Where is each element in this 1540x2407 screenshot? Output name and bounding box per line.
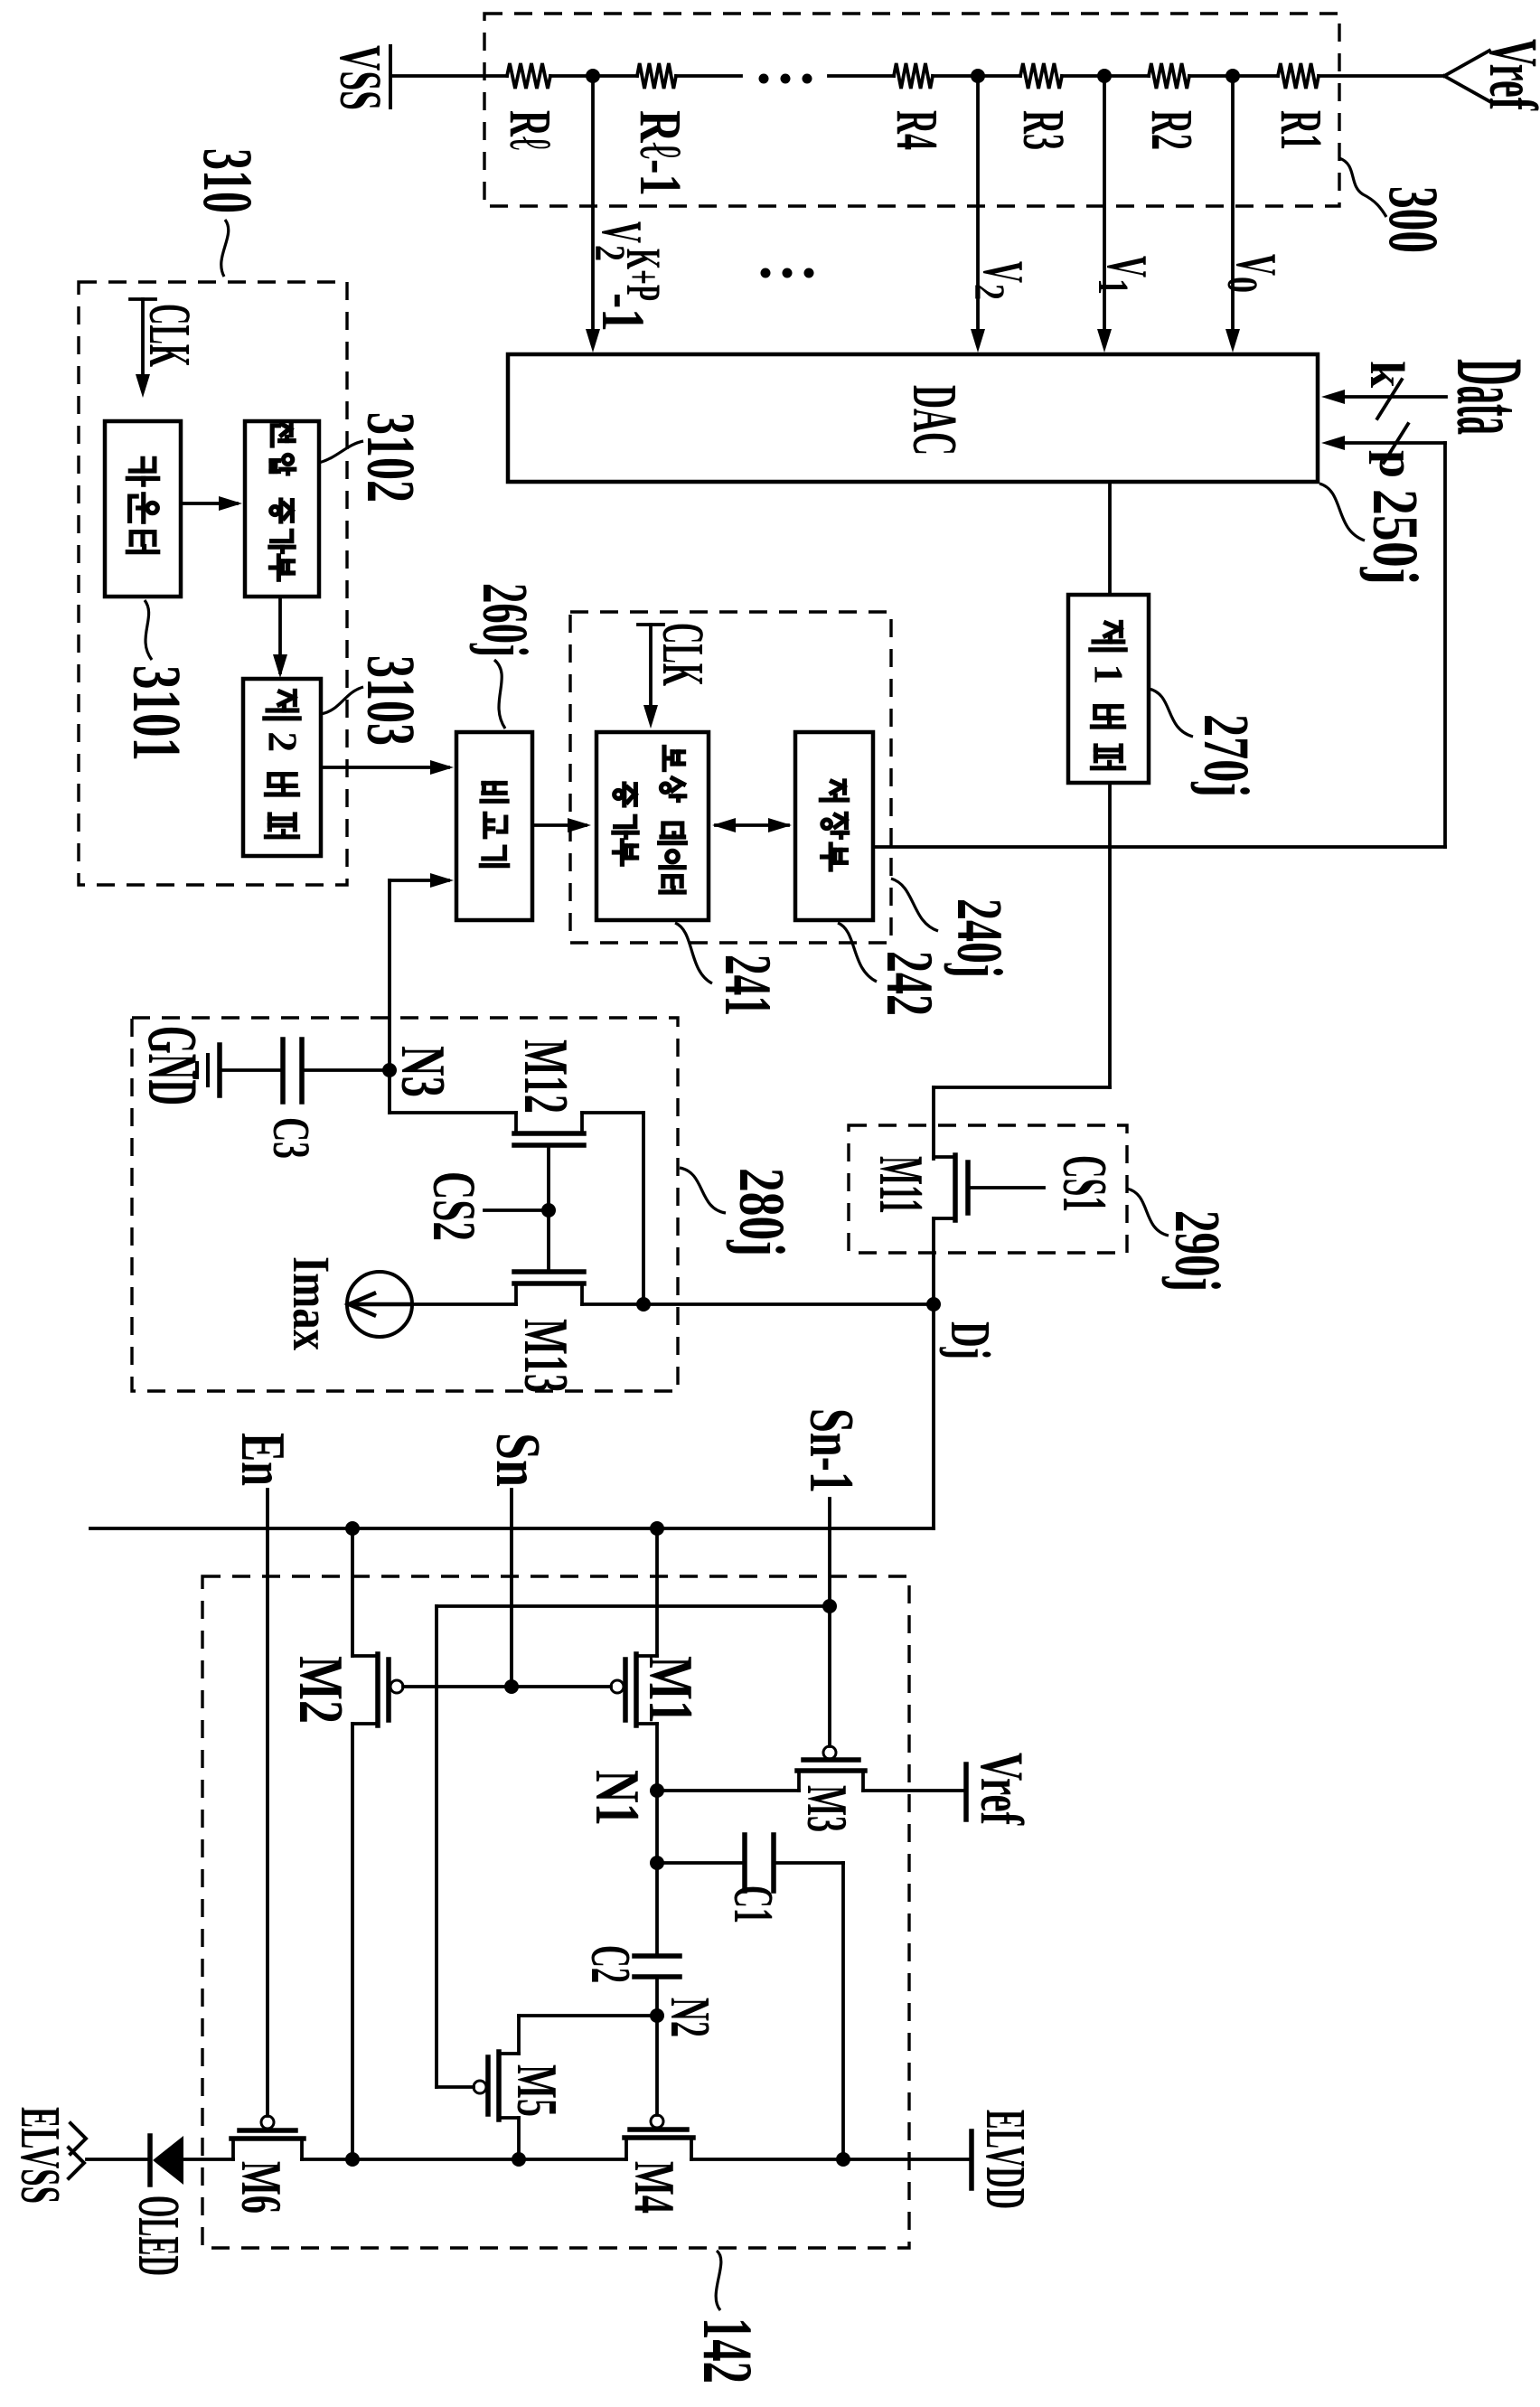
svg-text:260j: 260j	[469, 583, 541, 657]
transistor M1	[611, 1528, 657, 1791]
label 142 with leader	[689, 2251, 767, 2383]
node M5 source on rail	[512, 2152, 526, 2167]
svg-text:240j: 240j	[944, 898, 1016, 978]
svg-text:M11: M11	[866, 1156, 935, 1214]
svg-text:Dj: Dj	[939, 1321, 1000, 1359]
bus arrow p into DAC	[1321, 424, 1445, 463]
svg-text:C2: C2	[579, 1945, 641, 1983]
wire buffer1 output down	[1108, 783, 1112, 1087]
svg-text:N2: N2	[659, 1998, 720, 2037]
wire Rl-1 to dots	[676, 74, 741, 78]
dashed box 142 (pixel)	[202, 1576, 909, 2248]
resistor R3	[1010, 63, 1076, 150]
CLK input arrow (compensation)	[638, 623, 716, 729]
wire tap V0	[1225, 76, 1240, 353]
ELVDD terminal	[972, 2110, 1036, 2209]
wire N1 to M3	[657, 1789, 799, 1792]
svg-text:Rℓ: Rℓ	[497, 110, 563, 150]
svg-text:2: 2	[260, 731, 306, 752]
wire tap V1	[1097, 76, 1112, 353]
wire Rl to node	[550, 74, 593, 78]
svg-text:142: 142	[689, 2318, 767, 2383]
label 241 with leader	[675, 923, 784, 1016]
arrow buffer2 to comparator	[321, 760, 454, 775]
double arrow compensation-storage	[712, 818, 792, 832]
dashed box 310	[79, 282, 347, 885]
node N1-C1-C2 junction	[650, 1856, 664, 1870]
svg-text:3101: 3101	[118, 665, 194, 761]
svg-text:V: V	[590, 221, 654, 243]
svg-text:Sn: Sn	[483, 1433, 552, 1487]
wire M2 gate to Sn	[403, 1685, 512, 1688]
transistor M4	[624, 2115, 693, 2159]
diode OLED	[150, 2136, 183, 2185]
label 242 with leader	[838, 923, 946, 1016]
wire Dj data line horizontal	[90, 1527, 934, 1530]
wire tap V2^(K+P)-1	[586, 76, 600, 353]
label 3103 with leader	[321, 655, 428, 746]
svg-text:En: En	[228, 1433, 297, 1486]
svg-text:ELVSS: ELVSS	[9, 2107, 70, 2204]
ELVSS terminal chevrons	[9, 2107, 86, 2204]
wire comparator input from N3	[390, 873, 454, 1070]
transistor M12	[514, 1113, 584, 1145]
resistor R2	[1139, 63, 1205, 150]
svg-text:p: p	[1368, 450, 1424, 478]
svg-text:R3: R3	[1010, 110, 1076, 150]
svg-text:M1: M1	[635, 1656, 705, 1724]
svg-text:M13: M13	[511, 1319, 580, 1393]
label 270j with leader	[1149, 689, 1263, 797]
svg-text:CS1: CS1	[1049, 1155, 1119, 1212]
svg-text:C3: C3	[262, 1117, 321, 1159]
junction M12 source / M13 drain	[636, 1297, 651, 1312]
svg-text:VSS: VSS	[327, 45, 393, 110]
svg-text:3103: 3103	[352, 655, 428, 746]
wire DAC output	[1108, 482, 1112, 595]
node C1 on rail	[836, 2152, 850, 2167]
wire Sn-1 to M3 gate	[828, 1606, 831, 1746]
svg-text:250j: 250j	[1359, 489, 1432, 585]
wire data p feedback vertical	[1443, 443, 1447, 847]
dashed box 300 (resistor string block)	[484, 14, 1339, 206]
wire junction to C1	[657, 1861, 745, 1865]
bus arrow k into DAC	[1321, 380, 1446, 418]
label 310 with leader	[189, 148, 268, 277]
label 240j with leader	[891, 879, 1016, 978]
node Sn-1 branch	[822, 1599, 837, 1613]
capacitor C3	[262, 1039, 321, 1159]
wire node to R3	[978, 74, 1020, 78]
svg-text:Sn-1: Sn-1	[796, 1408, 866, 1493]
node Dj	[926, 1297, 941, 1312]
wire Sn-1 line	[828, 1499, 831, 1606]
node M2 drain on data line	[345, 1521, 360, 1536]
svg-text:Imax: Imax	[282, 1256, 341, 1350]
node V2^(K+P)-1 tap junction	[586, 69, 600, 83]
wire storage to data line	[873, 845, 1445, 849]
svg-text:k: k	[1360, 361, 1414, 388]
svg-text:-1: -1	[589, 293, 658, 332]
wire Sn line	[510, 1490, 513, 1687]
label 3102 with leader	[319, 412, 428, 503]
block storage (jeojangbu) 242	[795, 732, 873, 920]
block first buffer (je 1 beopeo)	[1068, 595, 1149, 783]
wire node to R2	[1104, 74, 1149, 78]
resistor Rl-1	[627, 63, 693, 196]
svg-text:CLK: CLK	[136, 304, 202, 367]
label 250j with leader	[1319, 484, 1432, 585]
transistor M5	[474, 2016, 519, 2159]
svg-text:2: 2	[965, 284, 1013, 300]
svg-text:M5: M5	[505, 2064, 569, 2117]
wire R4 to node V2	[933, 74, 978, 78]
wire M4 to ELVDD	[691, 2158, 969, 2161]
wire N2 to M5	[519, 2014, 657, 2017]
wire dots to R4	[829, 74, 894, 78]
svg-text:V: V	[1095, 256, 1160, 277]
wire C3 to ground	[221, 1068, 283, 1072]
wire Sn-1 branch to M5	[437, 1606, 830, 2087]
arrow counter to voltage-increase	[181, 496, 242, 511]
wire M3 to Vref	[863, 1789, 963, 1792]
transistor M6	[231, 2116, 304, 2159]
wire M13 to Dj	[582, 1302, 934, 1306]
svg-text:241: 241	[710, 954, 784, 1016]
svg-text:M3: M3	[795, 1785, 859, 1832]
DAC block	[508, 354, 1318, 482]
transistor M2	[352, 1528, 403, 2159]
svg-text:Rℓ-1: Rℓ-1	[627, 110, 693, 196]
transistor M3	[797, 1746, 865, 1791]
Vref terminal (pixel)	[966, 1753, 1037, 1826]
ground GND	[134, 1026, 220, 1105]
transistor M11	[934, 1155, 968, 1220]
wire N1 down	[655, 1791, 659, 1863]
node M2 source on rail	[345, 2152, 360, 2167]
ELVSS rail wire	[87, 2158, 150, 2161]
svg-text:R1: R1	[1268, 110, 1334, 150]
svg-text:R2: R2	[1139, 110, 1205, 150]
node V0 tap junction	[1225, 69, 1240, 83]
wire CS2 stub	[484, 1208, 549, 1212]
svg-text:R4: R4	[884, 110, 950, 150]
svg-text:3102: 3102	[352, 412, 428, 503]
capacitor C2	[579, 1863, 680, 2016]
resistor R1	[1268, 63, 1334, 150]
label 300 with leader	[1339, 158, 1453, 253]
CLK input arrow (counter)	[130, 299, 202, 398]
block voltage increase unit (jeonab jeunggabu) 3102	[245, 421, 319, 597]
wire M11 source to Dj node	[932, 1218, 935, 1528]
svg-text:310: 310	[189, 148, 268, 213]
node N2	[650, 2008, 664, 2023]
wire N2 to M4 gate	[655, 2016, 659, 2115]
label 290j with leader	[1127, 1189, 1234, 1292]
block second buffer (je 2 beopeo) 3103	[243, 679, 321, 856]
svg-text:1: 1	[1086, 663, 1132, 684]
wire R3 to node V1	[1062, 74, 1104, 78]
wire R2 to node V0	[1189, 74, 1233, 78]
label V1	[1089, 256, 1160, 295]
label 260j with leader	[469, 583, 541, 729]
svg-text:ELVDD: ELVDD	[974, 2110, 1036, 2209]
current source Imax	[347, 1272, 412, 1337]
svg-text:0: 0	[1218, 277, 1266, 293]
node Sn gate junction	[504, 1679, 519, 1694]
wire M12 source	[582, 1113, 643, 1304]
svg-text:Vref: Vref	[1475, 39, 1540, 111]
Vref terminal (open arrow)	[1444, 39, 1540, 111]
transistor M13	[514, 1272, 584, 1304]
dashed box 290j	[849, 1125, 1127, 1253]
label V2^(K+P)-1	[586, 221, 671, 332]
resistor Rl	[497, 63, 563, 150]
VSS terminal	[327, 45, 393, 110]
wire tap V2	[971, 76, 985, 353]
dashed box 240j	[570, 612, 891, 943]
svg-text:M4: M4	[623, 2161, 687, 2214]
wire M11 gate to CS1	[968, 1186, 1044, 1189]
svg-text:V: V	[972, 261, 1036, 283]
wire Imax to M13	[410, 1302, 516, 1306]
svg-text:280j: 280j	[726, 1168, 798, 1256]
svg-text:M12: M12	[511, 1039, 580, 1114]
wire to M11 drain	[934, 1086, 1110, 1089]
node V2 tap junction	[971, 69, 985, 83]
svg-text:C1: C1	[722, 1885, 784, 1923]
capacitor C1	[722, 1835, 784, 1923]
wire shared gate M12-M13	[547, 1145, 550, 1272]
label 3101 with leader	[118, 600, 194, 761]
dashed box 280j	[132, 1018, 678, 1391]
ellipsis dots between taps	[761, 268, 814, 278]
label 280j with leader	[680, 1168, 798, 1256]
wire N3 to C3	[302, 1068, 390, 1072]
wire VSS to Rl	[390, 74, 507, 78]
svg-text:OLED: OLED	[126, 2195, 192, 2276]
wire En line	[266, 1490, 269, 2116]
node CS2 gate junction	[541, 1203, 556, 1218]
block compensation data increase (bosang data jeunggabu) 241	[596, 732, 709, 920]
wire node to Rl-1	[593, 74, 637, 78]
svg-text:N1: N1	[582, 1770, 652, 1826]
svg-text:290j: 290j	[1161, 1210, 1234, 1292]
svg-text:M6: M6	[230, 2161, 294, 2214]
svg-text:242: 242	[872, 951, 946, 1016]
svg-text:1: 1	[1089, 278, 1137, 295]
block counter (kaunteo) 3101	[105, 421, 181, 597]
wire Sn to M1 gate	[512, 1685, 611, 1688]
node N1	[650, 1783, 664, 1798]
block comparator (bigyogi)	[456, 732, 532, 920]
svg-text:M2: M2	[286, 1656, 355, 1724]
arrow voltage-increase to buffer2	[273, 597, 287, 678]
arrow comparator to compensation unit	[532, 818, 591, 832]
resistor R4	[884, 63, 950, 150]
label V2	[965, 261, 1036, 300]
node N3	[382, 1063, 397, 1077]
wire node to R1	[1233, 74, 1278, 78]
svg-text:GND: GND	[134, 1026, 212, 1105]
wire OLED to M6	[183, 2158, 233, 2161]
svg-text:300: 300	[1375, 186, 1453, 253]
svg-text:Data: Data	[1437, 359, 1540, 435]
node M1 drain on data line	[650, 1521, 664, 1536]
label V0	[1218, 254, 1289, 293]
wire R1 to Vref	[1319, 74, 1444, 78]
svg-text:270j: 270j	[1190, 714, 1263, 797]
svg-text:N3: N3	[388, 1046, 457, 1097]
svg-text:CLK: CLK	[650, 623, 716, 686]
svg-text:DAC: DAC	[899, 385, 969, 456]
svg-text:Vref: Vref	[968, 1753, 1037, 1826]
wire M6 to M4 rail	[302, 2158, 626, 2161]
wire C1 to ELVDD rail	[774, 1863, 843, 2159]
wire M11 drain lead	[932, 1087, 935, 1159]
ellipsis dots on chain	[759, 74, 812, 84]
wire N3 to M12 drain	[390, 1070, 516, 1113]
svg-text:CS2: CS2	[420, 1171, 489, 1241]
svg-text:V: V	[1225, 254, 1289, 276]
node V1 tap junction	[1097, 69, 1112, 83]
